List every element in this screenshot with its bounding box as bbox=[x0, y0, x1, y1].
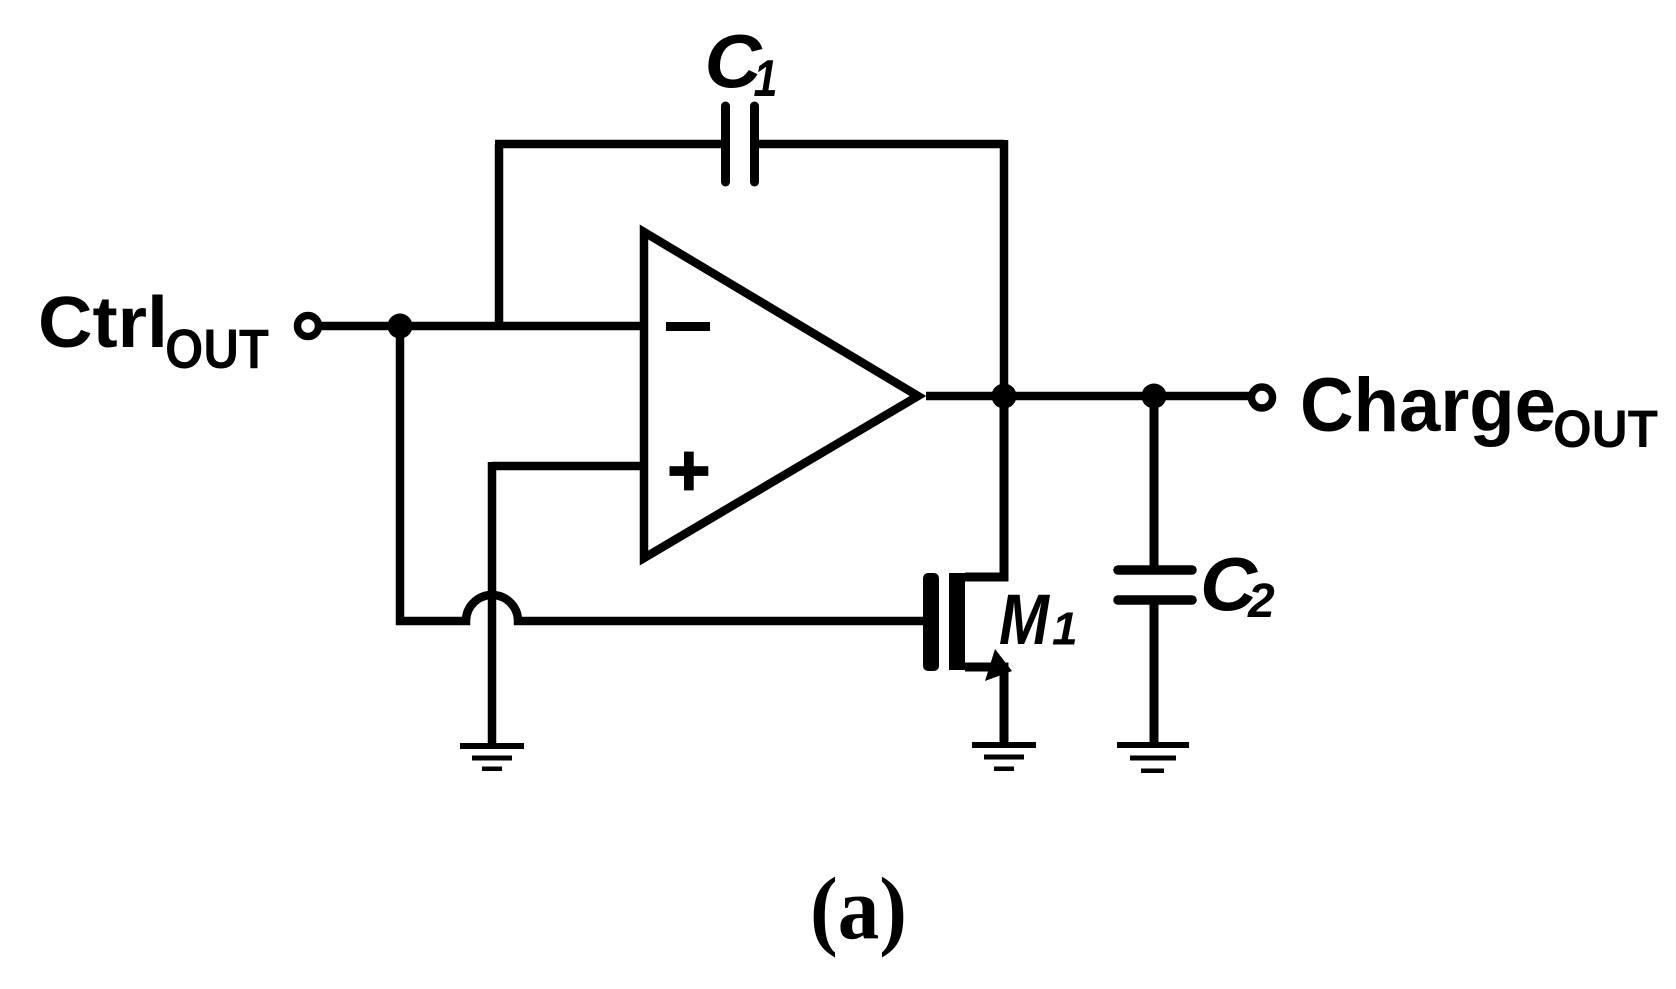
capacitor C2 bbox=[1118, 570, 1192, 600]
svg-text:1: 1 bbox=[754, 50, 778, 108]
svg-text:OUT: OUT bbox=[165, 317, 269, 380]
wire C2 top bbox=[1150, 396, 1159, 570]
wire feedback top right segment bbox=[758, 140, 1004, 149]
wire junction down to gate rail bbox=[396, 326, 405, 625]
wire feedback right vertical (to output node) bbox=[1000, 140, 1009, 396]
svg-text:1: 1 bbox=[1052, 603, 1078, 655]
op-amp minus symbol bbox=[666, 322, 710, 331]
node ChargeOUT terminal bbox=[1252, 387, 1273, 408]
wire source: M1 channel right and down to ground bbox=[965, 667, 1004, 743]
label M1 bbox=[999, 580, 1078, 660]
wire drain: output node down and left to M1 channel bbox=[965, 396, 1004, 577]
transistor M1 channel bar bbox=[949, 573, 965, 670]
label ChargeOUT bbox=[1300, 363, 1658, 459]
label C1 bbox=[705, 20, 778, 109]
wire Ctrl terminal to junction bbox=[319, 322, 400, 331]
node junction output / C2 bbox=[1142, 384, 1167, 409]
wire plus input down to ground bbox=[488, 462, 497, 746]
svg-text:2: 2 bbox=[1247, 575, 1275, 628]
wire feedback left vertical bbox=[495, 144, 504, 330]
svg-text:M: M bbox=[999, 580, 1050, 660]
node CtrlOUT terminal bbox=[298, 316, 319, 337]
node junction output / feedback bbox=[992, 384, 1017, 409]
ground (plus input net) bbox=[460, 743, 524, 771]
wire junction to op-amp minus input bbox=[400, 322, 645, 331]
node junction (Ctrl net) bbox=[388, 314, 413, 339]
svg-text:Charge: Charge bbox=[1300, 363, 1556, 448]
transistor M1 gate bar bbox=[923, 573, 939, 671]
wire C2 bottom bbox=[1150, 600, 1159, 744]
wire gate rail with hop over plus-input ground wire bbox=[396, 595, 923, 621]
wire plus input horizontal bbox=[492, 462, 645, 471]
capacitor C1 bbox=[726, 106, 755, 182]
op-amp U1 body bbox=[644, 232, 918, 558]
ground (C2) bbox=[1117, 742, 1189, 773]
label CtrlOUT bbox=[38, 283, 269, 380]
label C2 bbox=[1200, 543, 1275, 629]
wire feedback top left segment bbox=[495, 140, 722, 149]
op-amp plus symbol bbox=[670, 452, 709, 491]
transistor M1 source arrow bbox=[985, 649, 1012, 681]
svg-text:OUT: OUT bbox=[1553, 400, 1658, 459]
svg-text:Ctrl: Ctrl bbox=[38, 283, 168, 363]
wire op-amp output bbox=[926, 392, 1252, 401]
svg-text:(a): (a) bbox=[810, 861, 907, 959]
ground (M1 source) bbox=[972, 742, 1036, 771]
